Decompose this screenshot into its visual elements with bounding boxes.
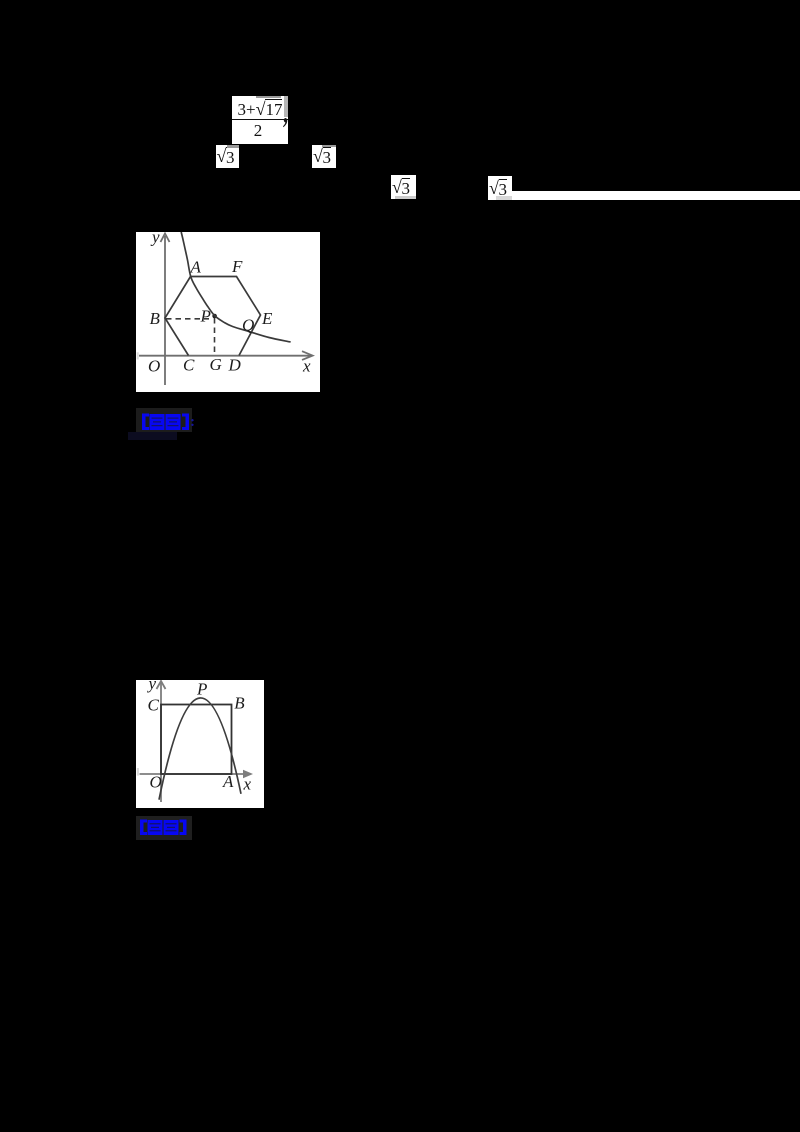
svg-text:P: P	[196, 680, 207, 699]
svg-text:A: A	[190, 258, 202, 277]
svg-text:B: B	[150, 309, 161, 328]
svg-text:y: y	[147, 680, 157, 693]
svg-text:B: B	[234, 694, 245, 713]
svg-text:D: D	[228, 356, 242, 375]
svg-text:E: E	[261, 309, 273, 328]
svg-text:x: x	[243, 775, 252, 794]
svg-text:y: y	[150, 232, 160, 247]
svg-text:O: O	[148, 357, 160, 376]
svg-text:C: C	[148, 696, 160, 715]
svg-text:x: x	[302, 357, 311, 376]
svg-text:Q: Q	[242, 316, 254, 335]
svg-text:A: A	[222, 772, 234, 791]
svg-text:O: O	[150, 773, 162, 792]
svg-text:G: G	[210, 355, 222, 374]
svg-text:F: F	[231, 257, 243, 276]
svg-text:C: C	[183, 356, 195, 375]
svg-text:P: P	[200, 307, 211, 326]
